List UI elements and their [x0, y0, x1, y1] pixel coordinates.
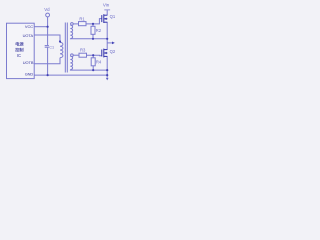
wire secondary 1 bottom	[70, 38, 107, 40]
wire R1 to Q1 gate	[86, 19, 102, 24]
background	[0, 0, 120, 90]
svg-text:R1: R1	[79, 17, 85, 22]
wire secondary 2 top to R3	[73, 54, 79, 56]
wire secondary 2 bottom	[70, 69, 107, 72]
resistor R3	[79, 53, 87, 57]
node Q1 source junction	[106, 38, 108, 40]
svg-text:Vin: Vin	[103, 2, 110, 7]
node secondary 1 phase dot	[71, 23, 74, 26]
svg-text:R3: R3	[80, 48, 86, 53]
junction dots	[47, 23, 115, 81]
node GND junction right	[106, 74, 108, 76]
capacitor C1 plates	[45, 45, 49, 47]
transistor Q1	[102, 14, 108, 23]
node R4 bottom junction	[92, 69, 94, 71]
wire VCC pin	[34, 26, 47, 28]
wire R3 to Q2 gate	[87, 54, 102, 57]
wire R2 bottom	[92, 34, 94, 39]
wire Vd vertical	[47, 17, 49, 45]
IC U1 box (power control IC)	[7, 23, 35, 78]
transformer secondary 2 winding	[70, 56, 72, 69]
node R3/R4 junction	[92, 54, 94, 56]
Vin terminal bar	[104, 9, 110, 11]
svg-text:UOTA: UOTA	[23, 33, 34, 38]
wire output arrow line	[107, 42, 112, 44]
wire Vin to Q1 drain	[106, 10, 108, 15]
transformer secondary 1 winding	[70, 25, 72, 38]
labels	[44, 2, 116, 64]
wire Q2 source to ground	[106, 56, 108, 77]
transformer core	[64, 23, 66, 73]
wire C1 to GND	[47, 48, 49, 76]
transistor Q2	[102, 49, 108, 58]
svg-text:UOTB: UOTB	[23, 60, 34, 65]
svg-text:IC: IC	[17, 53, 21, 58]
node VCC/Vd junction	[47, 26, 49, 28]
output arrow head	[112, 42, 115, 45]
node Vd terminal	[46, 13, 50, 17]
label 控制 (control)	[15, 42, 23, 52]
wire R4 top	[92, 55, 94, 58]
resistor R1	[79, 22, 87, 26]
resistor R4	[91, 58, 95, 66]
node primary phase dot	[59, 40, 61, 42]
svg-text:GND: GND	[25, 71, 34, 76]
svg-text:C1: C1	[49, 45, 54, 49]
node C1/GND junction	[47, 74, 49, 76]
wire UOTB pin	[34, 58, 60, 64]
transformer T1 primary winding	[60, 42, 63, 57]
wire UOTA pin	[34, 35, 60, 42]
ground arrow	[106, 78, 109, 81]
wire R2 top	[92, 24, 94, 26]
node secondary 2 phase dot	[71, 54, 74, 57]
resistor R2	[91, 26, 95, 34]
svg-text:R2: R2	[96, 28, 102, 33]
wire secondary 1 top to R1	[73, 23, 78, 25]
node sec2 bottom junction	[106, 69, 108, 71]
node R2 bottom junction	[92, 38, 94, 40]
svg-text:R4: R4	[96, 60, 102, 65]
node R1/R2 junction	[92, 23, 94, 25]
wire Q1 source down	[106, 22, 108, 49]
wire GND pin	[34, 74, 107, 76]
svg-text:VCC: VCC	[25, 24, 33, 29]
svg-text:Q2: Q2	[110, 49, 116, 54]
svg-text:Vd: Vd	[44, 7, 50, 12]
wire R4 bottom	[92, 66, 94, 70]
svg-text:Q1: Q1	[110, 14, 116, 19]
